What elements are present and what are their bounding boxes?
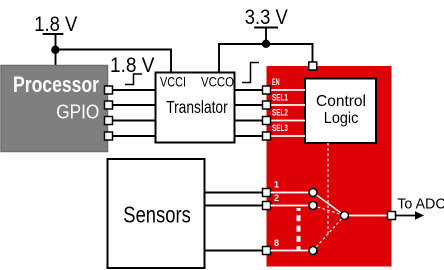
wire translator out1	[235, 89, 263, 91]
svg-text:EN: EN	[272, 77, 280, 87]
svg-text:3.3 V: 3.3 V	[245, 6, 288, 29]
svg-text:SEL1: SEL1	[272, 92, 288, 102]
svg-text:1.8 V: 1.8 V	[34, 13, 77, 36]
switch path ch8 dashed	[313, 216, 345, 251]
wire common to output pin	[345, 215, 392, 217]
svg-text:VCCO: VCCO	[201, 74, 234, 90]
power symbol 1.8V bar	[43, 33, 64, 35]
pin square GPIO4	[105, 132, 113, 140]
wire GPIO1 to translator	[113, 89, 156, 91]
switch common contact	[341, 212, 349, 220]
wire sensor ch1	[204, 192, 263, 194]
svg-text:8: 8	[274, 238, 279, 248]
wire SEL2 to control logic	[271, 120, 306, 122]
pin square GPIO1	[105, 86, 113, 94]
junction dot 3.3V	[262, 40, 270, 48]
wire EN to control logic	[271, 89, 306, 91]
select control dashed wire	[327, 143, 329, 235]
pin square SEL3	[263, 132, 271, 140]
switch contact ch8	[309, 247, 317, 255]
wire sensor ch8	[204, 250, 263, 252]
wire 1.8V rail to VCCI	[56, 50, 172, 74]
translator U2 box	[156, 73, 235, 143]
svg-text:2: 2	[274, 193, 279, 203]
switch path ch1 selected	[313, 193, 345, 216]
wire GPIO2 to translator	[113, 104, 156, 106]
wire 3.3V bar to dot	[265, 28, 267, 45]
svg-text:To ADC: To ADC	[397, 196, 444, 213]
wire ch8 to switch contact	[271, 250, 311, 252]
sensors box	[108, 159, 205, 268]
wire sensor ch2	[204, 205, 263, 207]
wire GPIO3 to translator	[113, 120, 156, 122]
wire SEL1 to control logic	[271, 104, 306, 106]
wire GPIO4 to translator	[113, 135, 156, 137]
pin square SEL1	[263, 101, 271, 109]
wire translator out2	[235, 104, 263, 106]
svg-text:Processor: Processor	[13, 72, 99, 97]
svg-text:GPIO: GPIO	[56, 101, 99, 124]
wire 3.3V rail to VCCO	[219, 44, 266, 73]
pin square ch2	[263, 202, 271, 210]
pin square ch8	[263, 247, 271, 255]
svg-text:1: 1	[274, 180, 279, 190]
switch contact ch2	[309, 202, 317, 210]
pin square GPIO3	[105, 117, 113, 125]
junction dot 1.8V	[51, 46, 59, 54]
pin square mux VCC	[309, 62, 317, 70]
pin square GPIO2	[105, 101, 113, 109]
svg-text:Sensors: Sensors	[123, 201, 191, 227]
svg-text:Translator: Translator	[166, 97, 228, 117]
wire translator out3	[235, 120, 263, 122]
wire 3.3V rail to mux supply pin	[266, 44, 313, 63]
svg-text:SEL3: SEL3	[272, 123, 288, 133]
arrowhead to ADC	[415, 211, 424, 220]
switch path ch2 dashed	[313, 206, 345, 216]
pin square SEL2	[263, 117, 271, 125]
wire ch1 to switch contact	[271, 192, 311, 194]
mux U3 red body	[267, 66, 392, 267]
power symbol 3.3V bar	[254, 27, 278, 29]
step symbol 3.3V side	[242, 63, 259, 83]
pin square output	[388, 212, 396, 220]
pin square ch1	[263, 189, 271, 197]
svg-text:SEL2: SEL2	[272, 108, 288, 118]
svg-text:VCCI: VCCI	[160, 74, 186, 90]
step symbol 1.8V side	[125, 74, 142, 85]
wire SEL3 to control logic	[271, 135, 306, 137]
svg-text:Control: Control	[316, 93, 366, 110]
svg-text:1.8 V: 1.8 V	[110, 54, 155, 77]
channel ellipsis dashed	[297, 208, 301, 250]
control logic box	[305, 79, 376, 144]
pin square EN	[263, 86, 271, 94]
svg-text:Logic: Logic	[324, 110, 359, 127]
wire 1.8V bar to processor	[55, 34, 57, 66]
wire ch2 to switch contact	[271, 205, 311, 207]
processor U1 box	[1, 66, 108, 152]
wire output to ADC with arrow	[396, 215, 417, 217]
wire translator out4	[235, 135, 263, 137]
switch contact ch1	[309, 189, 317, 197]
